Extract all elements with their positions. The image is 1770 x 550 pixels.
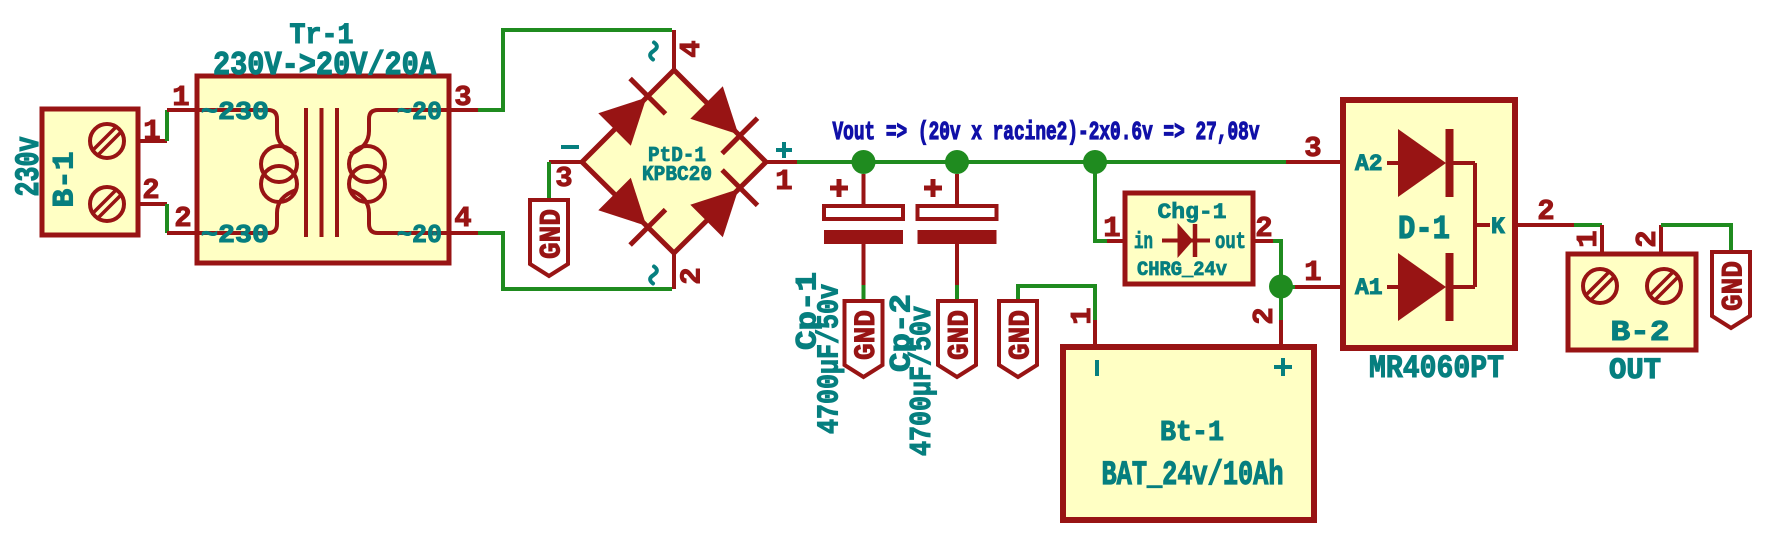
screw terminal B-2 pin 1 bbox=[1583, 269, 1617, 303]
pin K of D-1 bbox=[1515, 223, 1574, 227]
wire Vout bus to Chg-1 pin1 bbox=[1095, 162, 1107, 241]
wire Vout bus into D-1 A2 pin bbox=[1286, 160, 1343, 164]
transformer core lines bbox=[306, 108, 337, 237]
svg-text:~20: ~20 bbox=[397, 220, 442, 250]
svg-text:1: 1 bbox=[775, 165, 792, 198]
svg-text:A1: A1 bbox=[1355, 275, 1383, 301]
svg-text:in: in bbox=[1134, 229, 1153, 255]
capacitor Cp-2 bbox=[918, 174, 997, 285]
pin 2 of B-1 bbox=[138, 202, 167, 206]
pin 3 of PtD-1 (minus) bbox=[549, 160, 582, 164]
svg-text:GND: GND bbox=[943, 310, 977, 360]
power symbol GND (battery minus) bbox=[999, 301, 1038, 377]
bridge diode (left vertex to bottom vertex) bbox=[598, 178, 665, 245]
charger module Chg-1 body bbox=[1125, 193, 1253, 284]
svg-text:B-2: B-2 bbox=[1611, 316, 1670, 349]
bridge rectifier PtD-1 body (diamond) bbox=[582, 70, 766, 253]
plus mark of Cp-2 bbox=[924, 186, 942, 191]
svg-text:K: K bbox=[1491, 214, 1505, 240]
pin name ~ (bottom) bbox=[650, 267, 657, 284]
svg-text:~20: ~20 bbox=[397, 97, 442, 127]
wire B-1 pin2 to Tr-1 pin2 bbox=[165, 204, 169, 233]
svg-text:B-1: B-1 bbox=[49, 152, 83, 208]
svg-text:~230: ~230 bbox=[201, 97, 269, 127]
svg-text:D-1: D-1 bbox=[1398, 211, 1450, 248]
svg-text:3: 3 bbox=[1304, 132, 1321, 165]
pin 1 of Bt-1 (minus) bbox=[1093, 320, 1097, 347]
svg-text:4700µF/50v: 4700µF/50v bbox=[813, 284, 848, 434]
pin 2 of PtD-1 (AC bottom) bbox=[672, 253, 676, 289]
cathode connector inside D-1 bbox=[1475, 163, 1490, 287]
bridge diode (left vertex to top vertex) bbox=[598, 79, 665, 146]
svg-text:2: 2 bbox=[1537, 195, 1554, 228]
wire B-1 pin1 to Tr-1 pin1 bbox=[165, 110, 169, 141]
pin name - (minus) bbox=[561, 145, 579, 149]
svg-text:KPBC20: KPBC20 bbox=[642, 164, 712, 187]
svg-text:A2: A2 bbox=[1355, 151, 1383, 177]
svg-text:1: 1 bbox=[143, 115, 160, 148]
wire B-2 pin2 to GND bbox=[1661, 225, 1731, 252]
wire Tr-1 pin3 to bridge AC top bbox=[478, 30, 672, 110]
pin 1 of B-2 bbox=[1600, 225, 1604, 254]
diode A2 inside D-1 bbox=[1387, 129, 1475, 197]
svg-text:GND: GND bbox=[535, 209, 569, 259]
svg-text:MR4060PT: MR4060PT bbox=[1369, 350, 1504, 387]
pin 3 of Tr-1 bbox=[449, 108, 478, 112]
wire bridge minus to GND bbox=[547, 162, 551, 200]
junction node at Chg-1 branch bbox=[1083, 150, 1107, 174]
pin name + (plus) bbox=[776, 142, 792, 158]
power symbol GND (bridge minus) bbox=[530, 200, 569, 276]
svg-text:4: 4 bbox=[454, 202, 471, 235]
wire Cp-1 to GND bbox=[862, 285, 866, 301]
pin name + (Bt-1 plus) bbox=[1274, 358, 1292, 376]
terminal block B-1 (230v input) bbox=[42, 109, 138, 235]
pin name ~ (top) bbox=[650, 43, 657, 60]
svg-text:Vout => (20v x racine2)-2x0.6v: Vout => (20v x racine2)-2x0.6v => 27,08v bbox=[833, 117, 1260, 147]
terminal block B-2 body bbox=[1568, 254, 1696, 350]
svg-text:2: 2 bbox=[1255, 212, 1272, 245]
bridge diode (bottom vertex to right vertex) bbox=[690, 170, 757, 237]
wire Chg-1 out to node bbox=[1273, 241, 1281, 287]
pin 1 of Tr-1 bbox=[167, 108, 197, 112]
junction node at battery/D-1 bbox=[1269, 275, 1293, 299]
pin 2 of Tr-1 bbox=[167, 231, 197, 235]
pin 4 of Tr-1 bbox=[449, 231, 478, 235]
diode A1 inside D-1 bbox=[1387, 253, 1475, 321]
svg-text:1: 1 bbox=[172, 81, 189, 114]
svg-text:1: 1 bbox=[1304, 256, 1321, 289]
wire D-1 K to B-2 pin1 bbox=[1574, 223, 1602, 227]
svg-text:230v: 230v bbox=[11, 137, 49, 197]
svg-text:2: 2 bbox=[174, 202, 191, 235]
power symbol GND (output) bbox=[1712, 252, 1751, 328]
primary winding of Tr-1 bbox=[197, 110, 297, 233]
wire node to battery pin2 bbox=[1279, 287, 1283, 321]
svg-text:4700µF/50v: 4700µF/50v bbox=[905, 306, 940, 456]
svg-text:OUT: OUT bbox=[1609, 354, 1661, 388]
svg-text:3: 3 bbox=[555, 162, 572, 195]
svg-text:GND: GND bbox=[1004, 310, 1038, 360]
capacitor Cp-1 bbox=[824, 174, 903, 285]
pin 1 of Chg-1 (in) bbox=[1107, 239, 1125, 243]
screw terminal B-1 pin 1 bbox=[90, 124, 124, 158]
wire main Vout bus bbox=[797, 160, 1286, 164]
secondary winding of Tr-1 bbox=[349, 110, 449, 233]
power symbol GND (Cp-2) bbox=[938, 301, 977, 377]
battery block Bt-1 body bbox=[1063, 347, 1314, 520]
svg-text:BAT_24v/10Ah: BAT_24v/10Ah bbox=[1102, 457, 1284, 495]
wire Cp-2 to GND bbox=[955, 285, 959, 301]
plus mark of Cp-1 bbox=[830, 186, 848, 191]
svg-text:GND: GND bbox=[1717, 261, 1751, 311]
svg-text:4: 4 bbox=[675, 40, 708, 57]
svg-text:~230: ~230 bbox=[201, 220, 269, 250]
svg-text:Bt-1: Bt-1 bbox=[1160, 416, 1224, 449]
pin 1 of PtD-1 (plus) bbox=[766, 160, 797, 164]
svg-text:2: 2 bbox=[1248, 307, 1281, 324]
svg-text:3: 3 bbox=[454, 81, 471, 114]
junction node at Cp-1 bbox=[852, 150, 876, 174]
wire Tr-1 pin4 to bridge AC bottom bbox=[478, 233, 672, 289]
svg-text:2: 2 bbox=[142, 174, 159, 207]
pin name - (Bt-1 minus) bbox=[1095, 360, 1099, 376]
junction node at Cp-2 bbox=[945, 150, 969, 174]
svg-text:230V->20V/20A: 230V->20V/20A bbox=[213, 47, 436, 84]
svg-text:2: 2 bbox=[1631, 230, 1664, 247]
pin 1 of B-1 bbox=[138, 139, 167, 143]
bridge diode (top vertex to right vertex) bbox=[690, 86, 757, 153]
pin 2 of B-2 bbox=[1659, 225, 1663, 254]
pin 2 of Chg-1 (out) bbox=[1253, 239, 1273, 243]
pin 2 of Bt-1 (plus) bbox=[1279, 320, 1283, 347]
svg-text:out: out bbox=[1215, 229, 1246, 255]
wire node to D-1 A1 bbox=[1281, 285, 1295, 289]
pin A1 of D-1 bbox=[1295, 285, 1343, 289]
power symbol GND (Cp-1) bbox=[845, 301, 884, 377]
diode inside Chg-1 bbox=[1162, 223, 1210, 258]
svg-text:1: 1 bbox=[1572, 230, 1605, 247]
screw terminal B-1 pin 2 bbox=[90, 187, 124, 221]
transformer Tr-1 body bbox=[197, 76, 449, 263]
pin 4 of PtD-1 (AC top) bbox=[672, 30, 676, 70]
svg-text:CHRG_24v: CHRG_24v bbox=[1137, 259, 1227, 282]
svg-text:2: 2 bbox=[676, 267, 709, 284]
wire battery pin1 to GND bbox=[1018, 286, 1095, 320]
dual diode D-1 body bbox=[1343, 100, 1515, 348]
svg-text:1: 1 bbox=[1103, 212, 1120, 245]
svg-text:Chg-1: Chg-1 bbox=[1158, 200, 1227, 225]
screw terminal B-2 pin 2 bbox=[1647, 269, 1681, 303]
svg-text:GND: GND bbox=[850, 310, 884, 360]
